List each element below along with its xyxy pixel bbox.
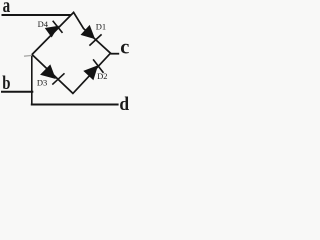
svg-text:D1: D1 <box>96 22 106 32</box>
svg-text:b: b <box>2 72 10 93</box>
svg-text:D4: D4 <box>38 19 49 29</box>
svg-text:D2: D2 <box>97 71 107 81</box>
svg-text:c: c <box>120 37 129 59</box>
svg-text:a: a <box>3 0 11 16</box>
svg-text:d: d <box>119 93 129 114</box>
svg-text:D3: D3 <box>37 78 47 88</box>
